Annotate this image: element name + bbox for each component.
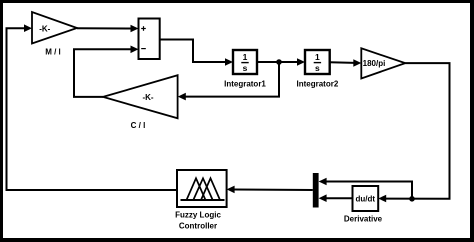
svg-text:M / l: M / l — [45, 48, 61, 57]
svg-text:Controller: Controller — [179, 222, 217, 231]
gain 180/pi — [361, 48, 405, 78]
integrator Integrator2 — [297, 50, 339, 89]
sum block — [139, 19, 160, 60]
svg-text:1: 1 — [315, 52, 320, 62]
svg-text:Derivative: Derivative — [344, 215, 383, 224]
svg-text:Fuzzy Logic: Fuzzy Logic — [175, 211, 221, 220]
svg-text:C / l: C / l — [131, 121, 146, 130]
wire gain 180/pi output down to derivative branch — [378, 63, 449, 202]
wire Integrator2 to gain 180/pi — [330, 59, 362, 67]
svg-text:1: 1 — [243, 52, 248, 62]
wire junction down and left to gain C/l input — [178, 62, 279, 100]
svg-text:-K-: -K- — [39, 25, 50, 34]
wire gain M/l to sum plus input — [77, 25, 139, 33]
wire sum output to Integrator1 — [160, 40, 233, 66]
wire Integrator1 to Integrator2 — [257, 58, 305, 66]
mux — [313, 173, 319, 208]
fuzzy logic controller block — [175, 170, 226, 231]
svg-text:s: s — [243, 63, 248, 73]
gain C/l — [103, 75, 178, 130]
svg-text:Integrator1: Integrator1 — [224, 80, 266, 89]
wire du/dt output to mux bottom input — [319, 194, 353, 202]
derivative block du/dt — [344, 186, 383, 224]
svg-text:180/pi: 180/pi — [363, 59, 386, 68]
wire mux output to Fuzzy Logic Controller input — [227, 186, 313, 194]
svg-text:s: s — [315, 63, 320, 73]
integrator Integrator1 — [224, 50, 266, 89]
svg-text:-K-: -K- — [142, 93, 153, 102]
node junction between integrators — [276, 59, 282, 65]
wire feedback from Fuzzy Logic Controller output to gain M/l input — [7, 24, 178, 190]
wire gain C/l output up to sum minus input — [74, 46, 139, 97]
svg-text:du/dt: du/dt — [356, 194, 376, 203]
gain M/l — [32, 12, 77, 57]
node junction derivative branch — [409, 196, 415, 202]
wire junction up and left to mux top input — [319, 178, 412, 199]
svg-text:Integrator2: Integrator2 — [297, 80, 339, 89]
